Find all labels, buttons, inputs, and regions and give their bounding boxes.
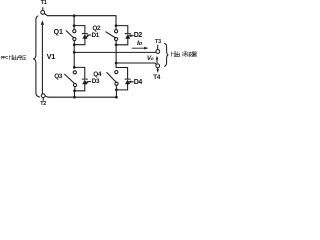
- node Q4 bottom: [115, 89, 118, 92]
- label Vo: [147, 56, 153, 63]
- wire Q3 to bottom rail: [74, 91, 76, 97]
- label D2 leader arrow: [131, 35, 134, 37]
- bottom rail: [45, 96, 116, 97]
- label D1: [92, 33, 99, 39]
- wire T1 to top rail: [44, 14, 74, 16]
- terminal T4 circle: [156, 64, 160, 68]
- label D4 leader arrow: [130, 81, 133, 83]
- node Q3 bottom: [73, 89, 76, 92]
- wire top rail: [74, 16, 116, 26]
- hanzi 滤: [182, 52, 187, 57]
- label T2: [40, 102, 46, 107]
- label T4: [153, 75, 160, 81]
- text 输出电压 (pseudo glyphs): [9, 55, 26, 59]
- brace left (PFC output): [33, 16, 39, 97]
- node Q2 top: [115, 24, 118, 27]
- label Io: [137, 41, 142, 48]
- voltage arrow Vo up: [156, 58, 158, 63]
- node top-left junction: [73, 14, 76, 17]
- wire left leg mid: [73, 45, 75, 68]
- label T3: [155, 40, 161, 45]
- terminal T3 circle: [156, 50, 160, 54]
- brace right (output filter): [164, 43, 168, 66]
- terminal T1 circle: [41, 11, 45, 15]
- transistor Q2 blade: [106, 32, 116, 38]
- label PFC: [1, 56, 8, 61]
- hanzi 出: [14, 55, 18, 59]
- transistor Q4 blade: [107, 73, 116, 83]
- terminal T1 stub: [42, 8, 44, 11]
- wire node B to T4: [116, 63, 156, 64]
- diode D3 branch wires: [74, 67, 85, 78]
- label V1: [47, 53, 55, 60]
- transistor Q1 blade: [66, 31, 74, 38]
- diode D2 branch wires: [116, 26, 128, 33]
- diode D2: [125, 33, 130, 35]
- node Q1 bottom: [73, 43, 76, 46]
- label Q1: [54, 29, 63, 36]
- diode D4: [125, 78, 130, 80]
- transistor Q4 (switch contacts): [115, 71, 118, 74]
- wire Q4 to bottom rail: [115, 90, 117, 97]
- wire node A to T3: [74, 51, 156, 53]
- terminal T2 circle: [41, 94, 45, 98]
- node Q1 top: [73, 24, 76, 27]
- node Q3 top: [73, 66, 76, 69]
- label Q4: [93, 72, 101, 78]
- text 输出 (right, pseudo glyphs): [171, 52, 179, 57]
- transistor Q2 (switch contacts): [115, 30, 118, 33]
- node bottom-left junction: [73, 96, 76, 99]
- label D2: [134, 32, 142, 39]
- hanzi 电: [18, 55, 22, 59]
- label D3: [92, 79, 99, 85]
- hanzi 波: [187, 52, 192, 57]
- node Q2 bottom: [115, 43, 118, 46]
- label D1 leader arrow: [88, 34, 91, 36]
- diode D1: [82, 33, 87, 35]
- node A (left leg midpoint): [73, 51, 76, 54]
- label Q3: [54, 74, 62, 80]
- transistor Q3 blade: [65, 74, 75, 83]
- wire left leg upper: [73, 16, 75, 26]
- diode D1 branch wires: [74, 26, 85, 33]
- hanzi 输: [9, 55, 13, 59]
- label Io arrow: [132, 47, 145, 49]
- text 滤波器 (pseudo glyphs): [182, 52, 196, 57]
- transistor Q3 (switch contacts): [73, 71, 76, 74]
- node bottom-right junction: [115, 96, 118, 99]
- label Q2: [92, 26, 100, 32]
- hanzi 压: [23, 56, 26, 60]
- voltage arrow V1: [41, 25, 43, 94]
- diode D4 branch wires: [116, 68, 128, 79]
- voltage arrow Vo down: [157, 68, 159, 70]
- label D4: [134, 79, 142, 86]
- transistor Q1 (switch contacts): [73, 30, 76, 33]
- hanzi 器: [192, 52, 197, 57]
- diode D3: [82, 78, 87, 80]
- label D3 leader arrow: [88, 81, 91, 83]
- terminal T3 stub: [157, 45, 159, 49]
- label T1: [41, 1, 47, 7]
- hanzi 输: [171, 52, 176, 57]
- hanzi 出: [176, 52, 180, 57]
- node B (right leg midpoint): [115, 62, 118, 65]
- wire right leg mid: [115, 45, 117, 68]
- terminal T2 stub: [42, 98, 44, 101]
